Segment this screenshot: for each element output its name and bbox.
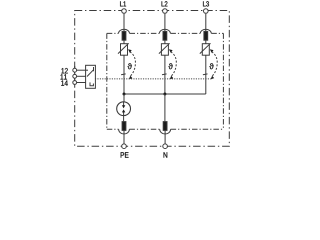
- thermal trip arc L3: [210, 49, 217, 79]
- label N: [164, 152, 168, 157]
- varistor R3 body: [202, 44, 209, 56]
- wire 12 to box: [77, 69, 86, 71]
- thermal trip arc L1: [128, 49, 135, 79]
- varistor R2 diagonal: [159, 43, 170, 53]
- wire L3 down: [205, 14, 207, 94]
- wire 14 to box: [77, 82, 86, 84]
- plug contact L3: [204, 31, 208, 40]
- boundary hop over L2 wire: [159, 29, 170, 33]
- wire bus to N contact: [164, 94, 166, 144]
- terminal N: [163, 144, 168, 149]
- changeover contact symbol: [86, 67, 94, 86]
- disconnector blade L2: [162, 73, 167, 76]
- label L3: [203, 1, 209, 6]
- label 11: [61, 74, 67, 79]
- boundary hop under PE wire: [119, 129, 130, 134]
- theta symbol L3: [209, 63, 213, 69]
- terminal 14: [73, 81, 77, 85]
- terminal PE: [122, 144, 127, 149]
- boundary hop under N wire: [160, 129, 171, 134]
- common bus wire: [124, 93, 206, 95]
- plug contact N: [163, 122, 167, 131]
- label L1: [120, 1, 126, 6]
- module boundary top (dash-dot): [107, 32, 224, 34]
- varistor R2 body: [161, 44, 168, 56]
- wire L1 down: [123, 14, 125, 94]
- mechanical linkage (dotted): [95, 78, 211, 80]
- module boundary bottom (dash-dot): [107, 128, 224, 130]
- varistor R3 diagonal: [200, 43, 211, 53]
- theta symbol L2: [168, 63, 172, 69]
- disconnector blade L3: [203, 73, 208, 76]
- boundary hop over L1 wire: [119, 29, 130, 33]
- terminal L1: [122, 9, 127, 14]
- plug contact PE: [122, 122, 126, 131]
- label PE: [121, 152, 129, 157]
- terminal 12: [73, 68, 77, 72]
- remote signalling terminals border segment: [74, 66, 76, 87]
- wire 11 to box: [77, 75, 86, 77]
- thermal trip arc L2: [169, 49, 176, 79]
- terminal L3: [204, 9, 209, 14]
- module boundary right (dash-dot): [222, 33, 224, 129]
- spark gap F1: [117, 102, 131, 116]
- module boundary left (dash-dot): [106, 33, 108, 129]
- label L2: [162, 1, 168, 6]
- label 12: [61, 68, 67, 73]
- junction node L1/bus: [123, 93, 126, 96]
- varistor R1 diagonal: [118, 43, 129, 53]
- label 14: [61, 80, 68, 85]
- plug contact L1: [122, 31, 126, 40]
- wire spark gap to PE contact: [123, 116, 125, 144]
- signalling contact box K1: [86, 65, 96, 88]
- terminal 11: [73, 74, 77, 78]
- wire bus to spark gap: [123, 94, 125, 102]
- plug contact L2: [163, 31, 167, 40]
- disconnector blade L1: [121, 73, 126, 76]
- theta symbol L1: [128, 63, 132, 69]
- boundary hop over L3 wire: [200, 29, 211, 33]
- terminal L2: [163, 9, 168, 14]
- varistor R1 body: [121, 44, 128, 56]
- junction node L2/bus: [163, 93, 166, 96]
- enclosure border (outer dash-dot): [75, 11, 230, 147]
- wire L2 down: [164, 14, 166, 94]
